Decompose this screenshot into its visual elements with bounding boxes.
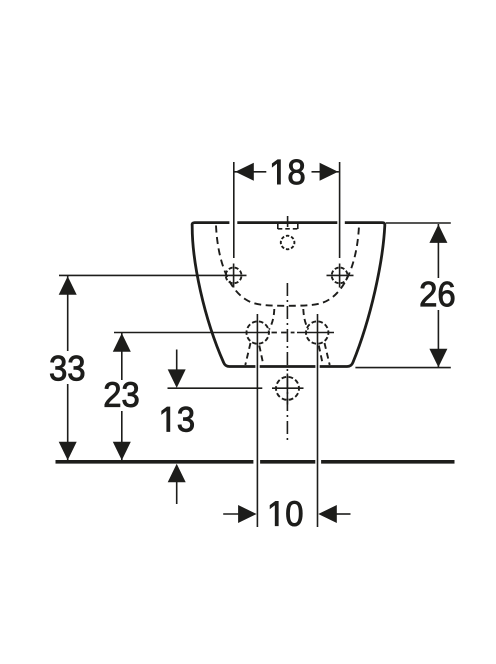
gaps in top edge at extension line crossings <box>229 220 237 227</box>
dimension 23 <box>113 333 270 461</box>
drain neck hidden left wall <box>269 309 274 330</box>
drain leg left inner <box>259 346 263 365</box>
bidet body outline <box>192 223 385 367</box>
fixing hole right <box>327 264 354 288</box>
drain leg left outer <box>245 343 250 365</box>
dimension 10 <box>223 314 350 527</box>
hidden line between connection holes <box>272 332 295 334</box>
floor line <box>56 460 455 464</box>
centre line <box>286 283 288 442</box>
gaps in floor line at extension line crossings <box>253 458 260 466</box>
crosshair line right connection hole <box>297 332 334 334</box>
water connection hole right <box>306 321 328 343</box>
drain neck hidden right wall <box>303 309 308 330</box>
drain leg right outer <box>325 343 330 365</box>
dimension 18 <box>234 162 340 258</box>
drain outlet hole below body <box>272 374 304 405</box>
overflow hole <box>281 236 295 250</box>
dimension 26 <box>355 223 450 368</box>
water connection hole left <box>247 321 269 343</box>
drain leg right inner <box>319 346 323 365</box>
tap hole rectangle <box>278 223 298 230</box>
dimension 33 <box>59 275 247 460</box>
dimension 13 <box>168 350 263 505</box>
inner bowl hidden outline <box>216 226 359 306</box>
gaps in bottom edge at extension line crossings <box>255 363 259 370</box>
centre tick on top edge <box>287 216 289 227</box>
fixing hole left <box>226 264 242 288</box>
